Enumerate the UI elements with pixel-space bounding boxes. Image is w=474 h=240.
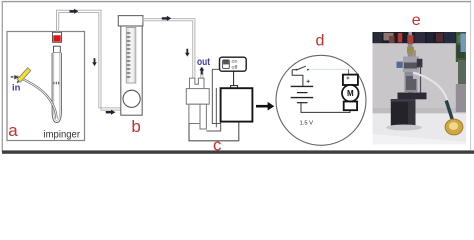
flowmeter b cap [118,16,143,26]
impinger box a [7,32,85,141]
arrow right into flowmeter [106,110,116,115]
photo plant [456,32,466,62]
flowmeter float circle [123,90,140,107]
svg-text:e: e [412,12,421,29]
arrow down before lamp [185,49,190,57]
photo lower bracket [405,72,418,92]
out stub tube [200,68,202,79]
flowmeter body [121,26,142,115]
photo floor front light [373,134,467,145]
photo clamp center [403,57,419,73]
photo yellow fitting [407,47,414,54]
switch S1 [292,69,296,71]
base frame [189,122,239,141]
tube flowmeter-to-lamp [143,19,195,78]
arrow right on top run [70,9,79,14]
svg-text:out: out [197,57,211,68]
svg-text:1.5 V: 1.5 V [300,120,314,126]
battery plus sign [307,80,310,83]
box nub [231,86,238,89]
power box [221,88,253,121]
lamp collar [186,89,209,105]
arrow right on outlet run [162,16,171,21]
photo floor [373,113,467,145]
photo red cap [407,35,413,44]
svg-text:b: b [131,117,140,136]
svg-text:in: in [12,83,21,94]
photo right knob [417,59,423,68]
switch icon [223,60,230,69]
bold arrow c-to-d [256,105,268,108]
photo blue knob [397,62,403,68]
on/off box [220,57,247,71]
frame left border [1,1,3,152]
photo top shelf bar [373,32,467,43]
circuit circle d [276,55,366,145]
frame top border [2,1,471,3]
green wire [309,69,349,71]
motor circle [342,85,359,102]
lamp body right [200,104,206,129]
photo stand pole [408,32,412,38]
motor bottom cap [344,102,357,111]
wire battery-to-motor bottom [301,103,350,113]
inlet cannula curve [17,76,57,118]
svg-text:M: M [347,89,354,98]
base inner wire [206,122,220,131]
motor plus [346,77,349,80]
photo tube [413,73,448,105]
graduation ticks on tube [54,82,59,85]
syringe yellow [16,68,31,84]
svg-text:c: c [213,135,222,154]
arrow in [11,75,19,80]
svg-text:impinger: impinger [44,129,81,141]
frame bottom bar [2,150,474,153]
photo crossbar [398,93,427,100]
tube impinger-to-flowmeter [57,10,122,110]
wire switch-to-battery [292,70,303,87]
photo e [373,32,467,145]
flowmeter scale ticks [127,33,131,77]
wire green-to-motor [348,70,350,75]
arrow down on tube [92,58,97,66]
lamp body left [189,104,200,123]
photo wall-floor shadow [373,108,467,114]
wire onoff-to-lamp [212,69,220,123]
impinger cap red [53,32,62,42]
flowmeter inner tube [126,28,136,84]
photo blue object [461,34,467,53]
photo battery box [391,99,416,126]
wire onoff-to-box [233,71,235,85]
svg-text:a: a [8,121,18,140]
arrow up out [199,67,204,75]
impinger neck [54,46,61,53]
photo clamp left arm [397,62,408,69]
battery B1 [291,86,314,102]
motor M top cap [343,75,358,85]
photo box shadow [386,125,422,131]
photo wall [373,32,467,145]
photo yellow ball [445,119,463,135]
impinger tube body [52,53,61,123]
wire second [215,88,217,127]
lamp prongs (castle) [190,78,205,89]
svg-text:off: off [232,65,238,71]
svg-text:d: d [316,32,325,49]
photo tube connector [446,101,452,120]
frame right border [470,2,472,150]
